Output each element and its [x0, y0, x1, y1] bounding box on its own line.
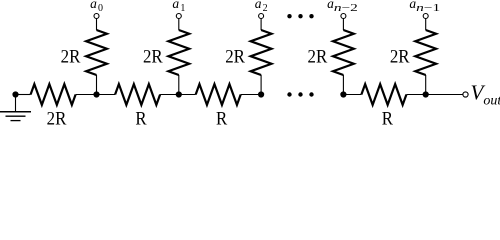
wire: branch resistor to rail node: [342, 75, 344, 95]
wire: rail segment left of series resistor 1: [16, 94, 31, 96]
svg-text:a2: a2: [255, 0, 268, 14]
wire: terminal a_2 to branch resistor: [260, 19, 262, 31]
resistor R (series #4 on rail): [361, 84, 406, 105]
node junction at branch a_n-2: [340, 91, 346, 97]
svg-text:2R: 2R: [308, 47, 328, 68]
svg-text:R: R: [216, 109, 227, 126]
wire: rail segment left of series resistor 3: [179, 94, 196, 96]
resistor 2R (branch a_n-2): [333, 30, 354, 75]
svg-text:2R: 2R: [225, 47, 245, 68]
ellipsis (top, between a_2 and a_n-2): [287, 14, 313, 18]
resistor R (series #2 on rail): [115, 84, 160, 105]
terminal a_1: [176, 14, 181, 19]
wire: branch resistor to rail node: [425, 75, 427, 95]
wire: rail segment left of series resistor 4: [343, 94, 361, 96]
wire: terminal a_1 to branch resistor: [178, 19, 180, 31]
svg-text:Vout: Vout: [471, 81, 500, 109]
node junction at branch a_2: [258, 91, 264, 97]
svg-text:R: R: [135, 109, 146, 126]
wire: last node to V_out terminal: [426, 94, 463, 96]
ellipsis (bottom, rail continuation): [287, 92, 313, 96]
terminal V_out: [463, 92, 468, 97]
svg-text:a1: a1: [172, 0, 185, 14]
resistor R (series #3 on rail): [196, 84, 241, 105]
wire: branch resistor to rail node: [260, 75, 262, 95]
resistor 2R (branch a_n-1): [415, 30, 436, 75]
node junction at branch a_0: [93, 91, 99, 97]
resistor 2R (branch a_2): [251, 30, 272, 75]
wire: terminal a_n-1 to branch resistor: [425, 19, 427, 31]
node junction at branch a_n-1: [423, 91, 429, 97]
svg-text:2R: 2R: [143, 47, 163, 68]
svg-text:2R: 2R: [390, 47, 410, 68]
wire: rail segment right of series resistor 1: [76, 94, 97, 96]
resistor 2R (series #1 on rail): [31, 84, 76, 105]
wire: rail segment left of series resistor 2: [97, 94, 116, 96]
wire: branch resistor to rail node: [178, 75, 180, 95]
node: ground junction: [12, 91, 18, 97]
svg-text:2R: 2R: [47, 109, 67, 126]
ground: [0, 95, 31, 121]
wire: terminal a_0 to branch resistor: [96, 19, 98, 31]
terminal a_n-2: [341, 14, 346, 19]
wire: rail segment right of series resistor 2: [160, 94, 179, 96]
terminal a_n-1: [423, 14, 428, 19]
wire: rail segment right of series resistor 4: [406, 94, 425, 96]
svg-text:a0: a0: [90, 0, 103, 14]
svg-text:an−2: an−2: [327, 0, 358, 14]
node junction at branch a_1: [176, 91, 182, 97]
svg-text:an−1: an−1: [409, 0, 440, 14]
svg-text:R: R: [382, 109, 393, 126]
resistor 2R (branch a_1): [168, 30, 189, 75]
terminal a_0: [94, 14, 99, 19]
wire: rail segment right of series resistor 3: [241, 94, 261, 96]
terminal a_2: [259, 14, 264, 19]
svg-text:2R: 2R: [61, 47, 81, 68]
wire: branch resistor to rail node: [96, 75, 98, 95]
resistor 2R (branch a_0): [86, 30, 107, 75]
wire: terminal a_n-2 to branch resistor: [342, 19, 344, 31]
